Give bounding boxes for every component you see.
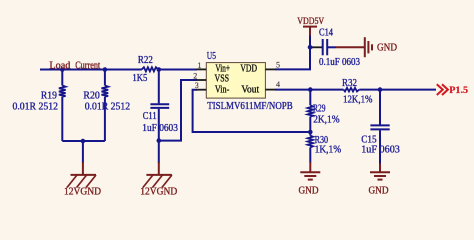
wire R30 bottom lead to GND	[309, 147, 311, 162]
wire R32 to port P1.5	[359, 89, 436, 91]
svg-text:R22: R22	[138, 55, 153, 66]
wire stem to 12VGND #2	[158, 141, 160, 163]
wire C14 left lead	[310, 46, 313, 48]
wire VDD pin5 to VDD5V column	[275, 36, 310, 70]
ground GND (right of C14, rotated)	[336, 37, 372, 57]
pin 3 stub	[196, 89, 206, 91]
svg-text:R20: R20	[83, 90, 100, 101]
wire Vout pin4 to R32	[275, 89, 344, 91]
svg-text:GND: GND	[377, 42, 397, 53]
node main/C11	[157, 67, 162, 72]
svg-text:12VGND: 12VGND	[140, 186, 177, 197]
wire bottom bar R19-R20	[62, 140, 105, 142]
wire stem to 12VGND #1	[82, 141, 84, 163]
svg-text:3: 3	[195, 81, 199, 90]
wire main net left segment	[40, 69, 142, 71]
node R32/C15	[378, 87, 383, 92]
wire Vin- pin3 to divider node	[193, 90, 311, 132]
svg-text:1K5: 1K5	[132, 73, 147, 84]
op-amp U5 body	[206, 63, 265, 99]
power VDD5V	[303, 27, 317, 36]
svg-text:12K,1%: 12K,1%	[343, 95, 373, 106]
node Vout/R29	[308, 87, 313, 92]
capacitor C14	[323, 39, 328, 55]
resistor R32	[344, 88, 360, 92]
svg-text:0.1uF 0603: 0.1uF 0603	[319, 57, 360, 68]
wire R29 top lead	[309, 90, 311, 106]
svg-text:0.01R 2512: 0.01R 2512	[13, 101, 59, 112]
wire R30 top lead	[309, 132, 311, 136]
node main/R20	[103, 67, 108, 72]
node VDD/C14	[308, 45, 313, 50]
wire C11 bottom lead	[158, 109, 160, 141]
node R29/R30 divider	[308, 130, 313, 135]
svg-text:R32: R32	[342, 78, 357, 89]
node main/R19	[60, 67, 65, 72]
resistor R22	[142, 67, 158, 71]
svg-text:Vin-: Vin-	[215, 85, 230, 96]
wire VSS pin2 to ground node	[159, 80, 197, 141]
svg-text:4: 4	[276, 80, 280, 89]
pin 2 stub	[196, 79, 206, 81]
ground GND (below R30)	[300, 162, 320, 180]
resistor R19	[59, 86, 66, 97]
svg-text:GND: GND	[369, 186, 389, 197]
capacitor C11	[150, 104, 169, 108]
svg-text:C14: C14	[319, 28, 334, 39]
svg-text:1uF 0603: 1uF 0603	[361, 144, 400, 155]
svg-text:1: 1	[198, 61, 202, 70]
svg-text:GND: GND	[299, 186, 319, 197]
wire C14 right lead	[327, 46, 336, 48]
wire R22 to U5 pin1	[158, 69, 197, 71]
port P1.5 arrow	[437, 84, 448, 95]
svg-text:R19: R19	[41, 90, 57, 101]
wire C14 left black lead	[313, 46, 323, 48]
pin 4 stub	[265, 89, 275, 91]
pin 5 stub	[265, 68, 275, 70]
svg-text:0.01R 2512: 0.01R 2512	[85, 101, 131, 112]
svg-text:Vout: Vout	[241, 85, 259, 96]
svg-text:VDD5V: VDD5V	[297, 17, 324, 27]
wire C15 top lead	[379, 90, 381, 125]
capacitor C15	[370, 125, 389, 129]
svg-text:1uF 0603: 1uF 0603	[142, 123, 178, 134]
svg-text:TISLMV611MF/NOPB: TISLMV611MF/NOPB	[207, 101, 293, 112]
wire R19 bottom lead	[61, 97, 63, 141]
wire R29 bottom lead	[309, 117, 311, 132]
wire R20 top lead	[104, 70, 106, 86]
wire C15 bottom lead to GND	[379, 130, 381, 164]
ground 12VGND #1	[67, 162, 96, 188]
wire C11 top lead	[158, 70, 160, 104]
svg-text:VDD: VDD	[240, 64, 257, 75]
svg-text:P1.5: P1.5	[449, 86, 468, 96]
svg-text:Load: Load	[49, 60, 71, 71]
svg-text:5: 5	[276, 60, 280, 69]
pin 1 stub	[196, 68, 206, 70]
svg-text:C11: C11	[143, 111, 157, 122]
resistor R29	[308, 105, 313, 116]
svg-text:Current: Current	[75, 60, 100, 71]
ground GND (below C15)	[370, 164, 390, 180]
svg-text:R29: R29	[313, 104, 326, 115]
resistor R20	[102, 86, 109, 97]
svg-text:1K,1%: 1K,1%	[315, 144, 342, 155]
svg-text:VSS: VSS	[215, 74, 230, 85]
wire R20 bottom lead	[104, 97, 106, 141]
svg-text:2K,1%: 2K,1%	[313, 114, 340, 125]
node bottom bar / gnd stem	[81, 139, 86, 144]
svg-text:2: 2	[193, 71, 197, 80]
wire R19 top lead	[61, 70, 63, 86]
svg-text:U5: U5	[207, 51, 216, 62]
resistor R30	[308, 136, 313, 148]
node C11/VSS/gnd	[157, 138, 162, 143]
svg-text:12VGND: 12VGND	[64, 186, 101, 197]
ground 12VGND #2	[143, 162, 172, 188]
